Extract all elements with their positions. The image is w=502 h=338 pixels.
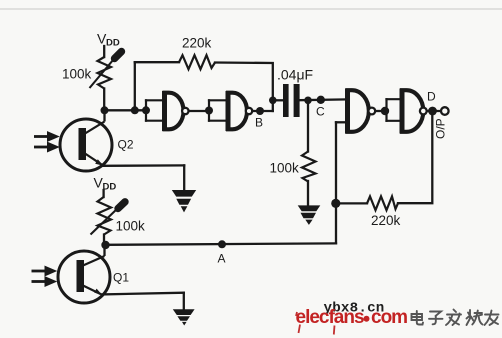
wire gate U1C lower input stub	[336, 121, 347, 123]
char shao	[467, 310, 483, 325]
svg-text:DD: DD	[103, 182, 117, 193]
wire 220k right to capacitor corner	[215, 63, 273, 112]
output terminal O/P	[441, 107, 449, 115]
top rule	[0, 8, 502, 10]
svg-text:220k: 220k	[371, 213, 401, 228]
char you	[485, 311, 499, 326]
ground Q2	[172, 190, 196, 212]
light arrows Q1	[32, 266, 57, 286]
U1A input loop	[146, 100, 164, 120]
svg-text:C: C	[316, 105, 325, 119]
phototransistor Q1	[58, 245, 110, 303]
svg-text:Q1: Q1	[113, 271, 129, 285]
wire 220k bottom to node D vertical	[398, 114, 432, 203]
svg-text:com: com	[371, 307, 407, 328]
node D	[428, 107, 437, 116]
potentiometer 100k top	[90, 52, 122, 89]
node capacitor left junction	[269, 97, 277, 105]
node U1A loop	[142, 106, 150, 114]
wire top to 220k left	[135, 61, 179, 63]
wire U1A to U1B	[189, 110, 209, 112]
wire into capacitor	[273, 99, 284, 101]
watermark chinese 电子发烧友	[412, 310, 499, 326]
svg-text:100k: 100k	[62, 67, 92, 82]
wire node C down to 100k	[307, 100, 309, 151]
node Q2 collector junction	[101, 106, 109, 114]
wire U1C bubble to U1D dot	[376, 110, 382, 112]
U1B input loop	[209, 100, 227, 120]
inverter U1C	[348, 89, 376, 134]
wire VDD bottom to pot	[102, 190, 104, 197]
wire pot bottom to junction	[103, 89, 105, 111]
svg-text:elecfans: elecfans	[296, 307, 364, 328]
watermark red ticks	[296, 312, 335, 335]
wire Q2 emitter run	[103, 165, 184, 190]
node A	[218, 240, 226, 248]
wire 100k to ground	[307, 181, 309, 206]
wire node B	[253, 110, 273, 112]
char fa	[446, 310, 461, 326]
capacitor .04uF	[283, 84, 300, 117]
svg-text:B: B	[255, 116, 263, 130]
wire junction to gate U1A input	[105, 109, 147, 111]
ground mid	[298, 205, 321, 225]
wire feedback vertical mid	[335, 122, 337, 243]
node B	[256, 107, 264, 115]
wire Q1 emitter run	[102, 293, 184, 310]
resistor 220k bottom	[367, 196, 398, 210]
svg-text:100k: 100k	[116, 219, 146, 234]
node bottom junction	[331, 199, 340, 208]
inverter U1D	[402, 89, 427, 134]
node feedback tap	[131, 106, 139, 114]
potentiometer 100k bottom	[91, 197, 126, 235]
resistor 220k top	[179, 55, 215, 69]
svg-text:O/P: O/P	[434, 118, 448, 139]
svg-text:D: D	[427, 90, 436, 104]
power VDD bottom	[94, 175, 117, 193]
wire feedback vertical left	[134, 62, 136, 110]
svg-text:A: A	[218, 252, 226, 266]
wire capacitor to gate U1C input	[300, 98, 347, 101]
svg-text:DD: DD	[106, 38, 120, 49]
node U1D loop	[381, 107, 389, 115]
resistor 100k mid	[302, 152, 316, 182]
watermark elecfans.com	[296, 307, 408, 328]
svg-text:.04μF: .04μF	[277, 67, 313, 83]
node U1B loop	[205, 107, 213, 115]
wire junction to 220k bottom	[338, 202, 367, 204]
svg-text:100k: 100k	[270, 161, 300, 176]
char zi	[429, 312, 443, 325]
wire U1D bubble to output	[427, 110, 441, 112]
wire VDD top to pot	[103, 46, 105, 57]
node Q1 collector junction	[101, 241, 109, 249]
power VDD top	[97, 31, 120, 49]
svg-text:220k: 220k	[182, 36, 212, 51]
char dian	[412, 311, 424, 325]
wire node A horizontal	[106, 243, 336, 244]
svg-text:Q2: Q2	[118, 138, 134, 152]
node C dot 1	[304, 97, 312, 105]
U1D input loop	[387, 99, 402, 121]
inverter U1B	[228, 91, 252, 131]
node C dot 2	[317, 96, 325, 104]
phototransistor Q2	[60, 110, 112, 171]
inverter U1A	[165, 91, 189, 131]
light arrows Q2	[34, 132, 59, 152]
ground Q1	[173, 309, 195, 325]
wire pot2 to Q1 junction	[103, 235, 105, 246]
